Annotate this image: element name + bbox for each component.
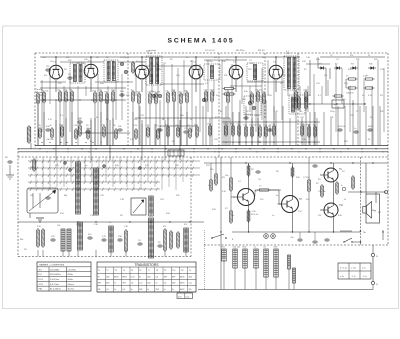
svg-text:2,2k: 2,2k [134,125,138,127]
svg-text:6,8k: 6,8k [274,247,278,249]
svg-text:R4 1,5k: R4 1,5k [250,125,257,127]
svg-text:3,3k: 3,3k [137,92,141,94]
svg-text:AF11: AF11 [180,275,184,278]
svg-text:3,3k: 3,3k [37,226,41,228]
svg-text:10k: 10k [225,175,228,177]
svg-text:68k: 68k [20,239,23,241]
svg-text:47k: 47k [102,125,105,127]
svg-text:1k: 1k [262,57,264,59]
svg-text:AF11: AF11 [114,275,118,278]
svg-text:9v: 9v [147,289,149,291]
svg-text:47k: 47k [163,226,166,228]
svg-text:T7: T7 [148,270,150,272]
svg-text:SCHEMA 1405: SCHEMA 1405 [167,38,234,45]
svg-text:6,8k: 6,8k [226,91,230,93]
svg-text:R4 1,5k: R4 1,5k [154,92,161,94]
svg-text:FM 10,7: FM 10,7 [258,50,266,52]
svg-text:87,5-104mc: 87,5-104mc [50,289,61,291]
svg-text:2,9v: 2,9v [178,296,182,298]
svg-text:1n: 1n [259,186,261,188]
svg-text:10k: 10k [30,195,33,197]
svg-text:6,8k: 6,8k [338,215,342,217]
svg-text:5n: 5n [190,119,192,121]
svg-text:47mc/s: 47mc/s [68,284,75,286]
svg-text:15k: 15k [57,225,60,227]
svg-text:9v: 9v [164,289,166,291]
svg-text:= 6v: = 6v [340,276,344,278]
svg-text:12k: 12k [189,289,192,291]
svg-text:C30 10n: C30 10n [46,139,54,141]
svg-text:C7 25p: C7 25p [206,61,213,63]
svg-text:- 1,5v: - 1,5v [362,276,367,278]
svg-text:10k: 10k [179,92,182,94]
svg-text:a 1070kc: a 1070kc [68,269,76,271]
svg-text:1,2v: 1,2v [189,283,192,285]
svg-text:5n: 5n [346,76,348,78]
svg-text:2N2: 2N2 [147,276,150,278]
svg-text:PU: PU [5,157,8,159]
svg-text:AF11: AF11 [180,282,184,285]
svg-text:15k: 15k [98,95,101,97]
svg-text:68k: 68k [158,69,161,71]
svg-text:520-1605kc: 520-1605kc [50,274,61,276]
svg-text:AF11: AF11 [180,288,184,291]
svg-text:6,8k: 6,8k [348,69,352,71]
svg-text:TRANSISTORS: TRANSISTORS [134,263,159,267]
svg-text:OC4: OC4 [131,276,135,278]
svg-text:2,2k: 2,2k [145,165,149,167]
svg-text:HP: HP [378,212,382,214]
svg-text:T6: T6 [139,270,141,272]
svg-text:.05: .05 [106,289,109,291]
svg-text:10k: 10k [134,119,137,121]
svg-text:OC2: OC2 [39,284,44,286]
svg-text:9v: 9v [114,289,116,291]
svg-text:47k: 47k [184,224,187,226]
svg-text:1n: 1n [109,222,111,224]
svg-text:1n: 1n [272,215,274,217]
svg-text:OC1: OC1 [39,279,44,281]
svg-text:1k: 1k [131,90,133,92]
svg-text:47k: 47k [38,125,41,127]
svg-text:R4 1,5k: R4 1,5k [251,214,258,216]
svg-text:15k: 15k [318,215,321,217]
svg-text:4 x 1,5v: 4 x 1,5v [340,268,347,270]
svg-text:FM: FM [39,289,42,291]
svg-text:2N2: 2N2 [172,283,175,285]
svg-text:9v: 9v [139,276,141,278]
svg-text:C7 25p: C7 25p [120,57,127,59]
svg-text:10,7mc: 10,7mc [68,289,75,291]
svg-text:2,2k: 2,2k [344,83,348,85]
svg-text:GAMMES + CONVERTISS: GAMMES + CONVERTISS [39,264,65,267]
svg-text:6,8k: 6,8k [180,115,184,117]
svg-text:0,5v: 0,5v [186,296,190,298]
svg-text:T3: T3 [115,270,117,272]
svg-text:5n: 5n [276,195,278,197]
svg-text:1k: 1k [50,125,52,127]
svg-text:PO GO OC: PO GO OC [205,50,216,52]
svg-text:9v: 9v [98,276,100,278]
svg-text:Pr: Pr [376,284,378,286]
svg-text:a 9v: a 9v [362,268,366,270]
svg-text:6,8-7,5mc: 6,8-7,5mc [50,284,59,286]
svg-text:35m: 35m [189,276,193,278]
svg-text:d'antenne: d'antenne [36,91,46,94]
svg-text:4,7k: 4,7k [368,95,372,97]
svg-text:6,8k: 6,8k [316,59,320,61]
svg-text:0,6: 0,6 [123,289,126,291]
svg-text:35m: 35m [106,283,110,285]
svg-text:10k: 10k [214,57,217,59]
svg-text:1n: 1n [366,75,368,77]
svg-text:3,3k: 3,3k [222,191,226,193]
svg-text:200kc: 200kc [68,279,74,281]
svg-text:455kc: 455kc [68,274,74,276]
svg-text:150-280kc: 150-280kc [50,269,60,271]
svg-text:2,2k: 2,2k [102,236,106,238]
svg-text:6,8k: 6,8k [304,90,308,92]
svg-text:4,7k: 4,7k [48,119,52,121]
svg-text:5n: 5n [186,57,188,59]
svg-text:1k: 1k [344,199,346,201]
svg-text:9v: 9v [114,283,116,285]
svg-text:a 7,5v: a 7,5v [351,268,356,270]
svg-text:9v: 9v [156,283,158,285]
svg-text:1n: 1n [226,59,228,61]
svg-text:47k: 47k [44,75,47,77]
svg-text:det: det [334,103,337,106]
svg-text:Th: Th [189,270,191,272]
svg-text:C30 10n: C30 10n [233,247,241,249]
svg-text:9v: 9v [131,289,133,291]
svg-text:1n: 1n [354,128,356,130]
svg-text:15k: 15k [134,75,137,77]
svg-text:T10: T10 [172,270,175,272]
svg-text:68k: 68k [64,195,67,197]
svg-text:T9: T9 [164,270,166,272]
svg-text:.05: .05 [131,283,134,285]
svg-text:C30 10n: C30 10n [318,191,326,193]
svg-text:15k: 15k [86,125,89,127]
svg-text:T11: T11 [181,270,184,272]
svg-text:R4 1,5k: R4 1,5k [338,126,345,128]
svg-text:C30 10n: C30 10n [76,63,84,65]
svg-text:6,8k: 6,8k [244,91,248,93]
svg-text:2,2k: 2,2k [130,139,134,141]
svg-text:1k: 1k [114,125,116,127]
svg-text:47k: 47k [350,55,353,57]
svg-text:T4: T4 [123,270,125,272]
svg-text:5,9-6,2mc: 5,9-6,2mc [50,279,59,281]
svg-text:5n: 5n [85,165,87,167]
svg-text:68k: 68k [185,91,188,93]
svg-text:Touche: Touche [36,89,44,91]
svg-text:5n: 5n [362,95,364,97]
svg-text:2N2: 2N2 [156,289,159,291]
svg-text:T1: T1 [98,270,100,272]
svg-text:T8: T8 [156,270,158,272]
svg-text:- 1,2v: - 1,2v [351,276,356,278]
svg-text:6,8k: 6,8k [100,83,104,85]
svg-text:2,2k: 2,2k [176,75,180,77]
svg-text:35m: 35m [147,283,151,285]
svg-text:C7 25p: C7 25p [303,177,310,179]
svg-text:9v: 9v [172,289,174,291]
svg-text:0,6: 0,6 [164,283,167,285]
svg-text:1k: 1k [156,125,158,127]
svg-text:T5: T5 [131,270,133,272]
svg-text:Pr: Pr [376,256,378,258]
svg-text:T2: T2 [106,270,108,272]
svg-text:0,6: 0,6 [156,276,159,278]
svg-text:5n: 5n [232,215,234,217]
svg-text:10k: 10k [208,185,211,187]
svg-text:2N2: 2N2 [106,276,109,278]
svg-text:MF 455kc: MF 455kc [236,50,245,52]
svg-text:PO: PO [39,274,42,276]
svg-text:12k: 12k [98,289,101,291]
svg-text:GO: GO [39,269,43,271]
svg-text:15k: 15k [324,75,327,77]
svg-text:1,2v: 1,2v [139,283,142,285]
svg-text:1k: 1k [292,99,294,101]
svg-text:1k: 1k [368,55,370,57]
svg-text:C30 10n: C30 10n [346,93,354,95]
svg-text:6,8k: 6,8k [115,165,119,167]
svg-text:2N2: 2N2 [139,289,142,291]
svg-text:AF11: AF11 [123,275,127,278]
